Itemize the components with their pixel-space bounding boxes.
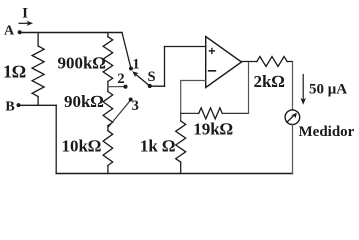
svg-text:50 μA: 50 μA: [309, 82, 347, 98]
contact 1 dot: [129, 67, 133, 71]
wire pole to riser: [150, 85, 165, 87]
resistor 900k: [103, 37, 113, 82]
wire 10k bottom lead: [107, 166, 109, 174]
wire feedback left segment: [181, 112, 199, 114]
svg-text:2: 2: [117, 71, 124, 87]
wire top rail A: [20, 32, 122, 34]
resistor 2k: [257, 57, 287, 67]
resistor 19k: [199, 108, 223, 119]
svg-text:A: A: [4, 24, 15, 39]
op-amp triangle: [206, 37, 242, 88]
contact 2 dot: [123, 85, 127, 89]
node B dot: [17, 103, 21, 107]
svg-text:S: S: [147, 69, 155, 85]
current arrow 50uA: [300, 75, 306, 105]
svg-text:3: 3: [132, 98, 139, 114]
svg-text:10kΩ: 10kΩ: [61, 137, 101, 156]
meter needle: [287, 113, 297, 123]
wire op-amp output: [242, 61, 257, 63]
switch lever S: [132, 71, 150, 86]
wire 1ohm top lead: [37, 33, 39, 47]
wire 1k bottom lead: [180, 162, 182, 173]
resistor 1ohm: [32, 46, 44, 97]
wire stub to contact 2: [108, 86, 126, 88]
wire feedback right segment: [222, 112, 248, 114]
svg-text:1Ω: 1Ω: [3, 62, 26, 82]
wire 2k to corner: [287, 61, 292, 63]
svg-text:I: I: [22, 6, 28, 22]
op-amp plus sign: [209, 48, 214, 53]
switch pole dot: [148, 84, 152, 88]
wire junction to contact 3 diagonal: [109, 101, 131, 127]
svg-text:19kΩ: 19kΩ: [193, 120, 233, 139]
wire op-amp minus input: [181, 80, 206, 82]
svg-text:1k Ω: 1k Ω: [140, 137, 175, 156]
wire 900k to junction 2: [107, 82, 109, 92]
wire 1ohm bottom lead: [37, 97, 39, 106]
svg-text:2kΩ: 2kΩ: [253, 72, 284, 91]
resistor 1k: [176, 121, 186, 162]
svg-text:90kΩ: 90kΩ: [64, 92, 104, 111]
wire 90k to 10k: [107, 126, 109, 131]
resistor 90k: [103, 92, 113, 126]
contact 3 dot: [129, 98, 133, 102]
wire B down to bottom rail: [55, 105, 57, 173]
wire bottom rail: [56, 173, 292, 175]
wire divider chain top lead: [107, 33, 109, 37]
meter circle: [285, 110, 300, 125]
op-amp minus sign: [209, 70, 216, 72]
wire diagonal to contact 1: [122, 33, 131, 69]
svg-text:900kΩ: 900kΩ: [57, 53, 105, 72]
wire minus input down: [180, 81, 182, 114]
resistor 10k: [103, 131, 113, 166]
wire B horizontal: [19, 104, 57, 106]
svg-text:1: 1: [132, 57, 139, 73]
svg-text:Medidor: Medidor: [299, 124, 355, 140]
wire riser up: [164, 47, 166, 87]
svg-text:B: B: [5, 100, 14, 115]
wire down to meter: [292, 62, 294, 111]
current arrow I: [19, 21, 33, 26]
wire to op-amp plus input: [165, 46, 206, 48]
node A dot: [18, 30, 22, 34]
wire feedback up to output: [248, 62, 250, 114]
wire 1k top lead: [180, 113, 182, 121]
wire meter bottom lead: [292, 125, 294, 174]
